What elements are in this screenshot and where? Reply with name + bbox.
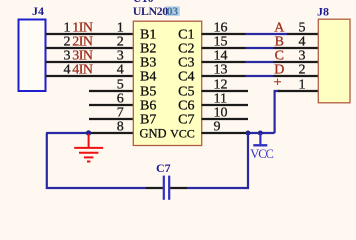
svg-text:3: 3 <box>117 49 124 64</box>
pin stub U10.13 <box>202 75 246 77</box>
capacitor C7 plate left <box>163 176 165 200</box>
ground bar 2 <box>79 152 98 154</box>
svg-text:1: 1 <box>299 78 306 93</box>
svg-text:1IN: 1IN <box>72 21 93 36</box>
wire net plus corner <box>275 91 280 133</box>
pin stub U10.6 <box>89 104 133 106</box>
power port VCC bar <box>253 144 267 146</box>
svg-text:4: 4 <box>64 63 71 78</box>
svg-text:+: + <box>274 75 282 90</box>
wire net A <box>246 33 288 35</box>
svg-text:C2: C2 <box>178 42 194 57</box>
pin stub U10.11 <box>202 104 249 106</box>
wire net B <box>246 47 274 49</box>
svg-text:C1: C1 <box>178 28 194 43</box>
pin stub J8.5 <box>287 33 318 35</box>
wire row1 J4.1 to U10.B1 <box>46 33 133 35</box>
svg-text:C3: C3 <box>178 56 194 71</box>
svg-text:1: 1 <box>64 21 71 36</box>
svg-text:11: 11 <box>214 92 227 107</box>
svg-text:B4: B4 <box>140 70 156 85</box>
svg-text:A: A <box>274 21 285 36</box>
svg-text:8: 8 <box>117 120 124 135</box>
pin stub U10.16 <box>202 33 246 35</box>
svg-text:C4: C4 <box>178 70 194 85</box>
svg-text:3IN: 3IN <box>72 49 93 64</box>
pin stub U10.14 <box>202 61 246 63</box>
svg-text:C5: C5 <box>178 85 194 100</box>
pin stub U10.10 <box>202 118 249 120</box>
svg-text:5: 5 <box>299 21 306 36</box>
svg-text:1: 1 <box>117 21 124 36</box>
IC body U10 <box>133 21 201 145</box>
wire row2 J4.2 to U10.B2 <box>46 47 133 49</box>
svg-text:9: 9 <box>214 120 221 135</box>
svg-text:5: 5 <box>117 78 124 93</box>
svg-text:13: 13 <box>214 63 228 78</box>
svg-text:C7: C7 <box>156 161 171 175</box>
svg-text:03: 03 <box>167 4 179 18</box>
svg-text:7: 7 <box>117 106 124 121</box>
pin stub J8.2 <box>274 75 319 77</box>
svg-text:B: B <box>275 35 284 50</box>
svg-text:4IN: 4IN <box>72 63 93 78</box>
wire bottom right and right riser <box>187 133 248 188</box>
wire row3 J4.3 to U10.B3 <box>46 61 133 63</box>
pin stub U10.9 <box>202 132 249 134</box>
svg-text:16: 16 <box>214 21 228 36</box>
junction dot VCC net right <box>258 131 263 136</box>
connector J8 <box>318 19 350 103</box>
svg-text:VCC: VCC <box>170 126 195 140</box>
svg-text:J8: J8 <box>317 4 329 18</box>
svg-text:VCC: VCC <box>250 147 273 161</box>
svg-text:B5: B5 <box>140 85 156 100</box>
svg-text:B2: B2 <box>140 42 156 57</box>
svg-text:2: 2 <box>64 35 71 50</box>
capacitor C7 lead right <box>170 187 187 189</box>
svg-text:GND: GND <box>140 126 167 140</box>
wire row4 J4.4 to U10.B4 <box>46 75 133 77</box>
svg-text:6: 6 <box>117 92 124 107</box>
pin stub J8.4 <box>274 47 319 49</box>
svg-text:4: 4 <box>299 35 306 50</box>
pin stub J8.1 <box>278 90 318 92</box>
svg-text:12: 12 <box>214 78 228 93</box>
pin stub U10.7 <box>89 118 133 120</box>
wire net C <box>246 61 274 63</box>
svg-text:ULN20: ULN20 <box>133 4 169 18</box>
junction dot GND <box>86 130 91 135</box>
svg-text:14: 14 <box>214 49 228 64</box>
capacitor C7 plate right <box>168 176 170 200</box>
pin stub U10.8 GND <box>89 132 133 134</box>
svg-text:B6: B6 <box>140 99 156 114</box>
capacitor C7 lead left <box>145 187 163 189</box>
junction dot VCC net left <box>246 131 251 136</box>
svg-text:2: 2 <box>299 63 306 78</box>
svg-text:3: 3 <box>299 49 306 64</box>
svg-text:4: 4 <box>117 63 124 78</box>
wire left riser <box>47 133 145 188</box>
wire VCC net to corner <box>248 132 275 134</box>
ground bar 4 <box>87 161 90 163</box>
pin stub J8.3 <box>274 61 319 63</box>
wire GND net left <box>46 132 89 134</box>
svg-text:2IN: 2IN <box>72 35 93 50</box>
ground stem <box>88 134 90 147</box>
pin stub U10.12 <box>202 90 249 92</box>
power port VCC stem <box>259 133 261 144</box>
selection highlight on 03 <box>165 6 179 16</box>
connector J4 <box>19 20 46 92</box>
ground bar 1 <box>74 147 103 149</box>
svg-text:B3: B3 <box>140 56 156 71</box>
svg-text:J4: J4 <box>32 4 44 18</box>
pin stub U10.5 <box>89 90 133 92</box>
svg-text:2: 2 <box>117 35 124 50</box>
svg-text:C: C <box>275 49 284 64</box>
wire net D <box>246 75 274 77</box>
svg-text:10: 10 <box>214 106 228 121</box>
svg-text:C6: C6 <box>178 99 194 114</box>
svg-text:15: 15 <box>214 35 228 50</box>
svg-text:B1: B1 <box>140 28 156 43</box>
svg-text:3: 3 <box>64 49 71 64</box>
ground bar 3 <box>84 156 93 158</box>
pin stub U10.15 <box>202 47 246 49</box>
